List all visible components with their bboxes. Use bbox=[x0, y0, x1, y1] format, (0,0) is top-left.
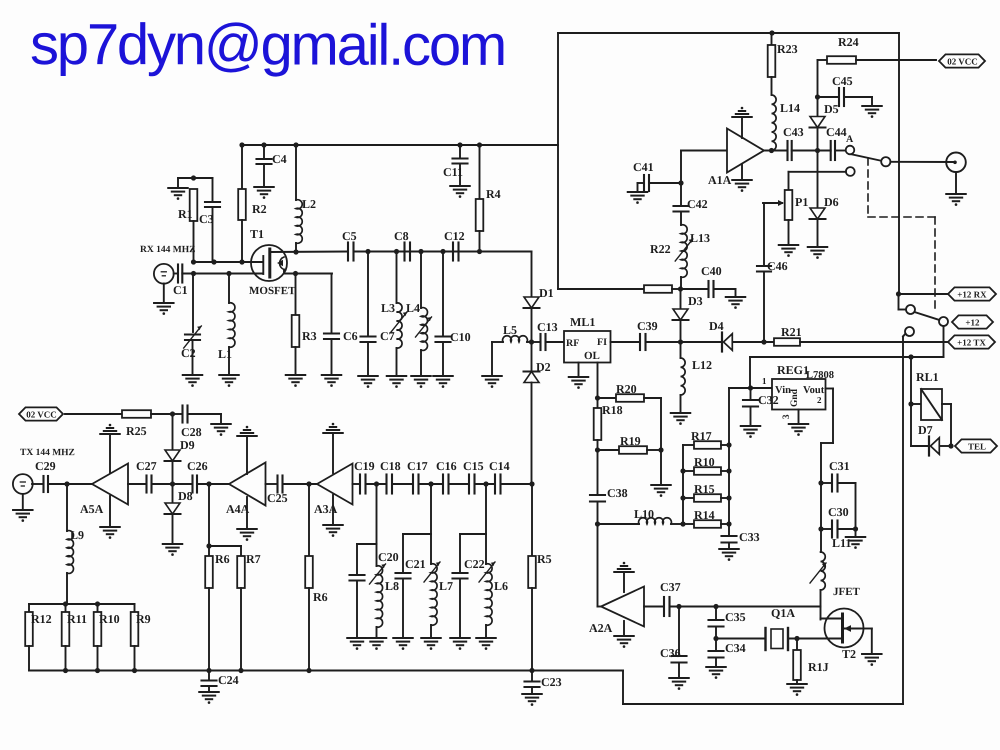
capacitor C6 bbox=[324, 274, 358, 376]
svg-text:C3: C3 bbox=[199, 212, 214, 226]
wire box outline top-right bbox=[558, 33, 899, 294]
resistor R5 bbox=[528, 484, 552, 671]
svg-text:D1: D1 bbox=[539, 286, 554, 300]
ground L4 bbox=[411, 376, 430, 388]
svg-text:D4: D4 bbox=[709, 319, 724, 333]
svg-text:L7808: L7808 bbox=[806, 370, 834, 381]
wire C30 left col bbox=[820, 483, 822, 529]
node rail-R2 bbox=[239, 142, 244, 147]
diode D3 bbox=[673, 289, 703, 342]
svg-text:C44: C44 bbox=[826, 125, 847, 139]
svg-text:D7: D7 bbox=[918, 423, 933, 437]
ground C24 bbox=[199, 692, 218, 704]
wire C26 to A4A bbox=[197, 483, 229, 485]
svg-text:R7: R7 bbox=[246, 552, 261, 566]
resistor R1J bbox=[793, 639, 829, 685]
ground tank3 cap bbox=[450, 638, 469, 650]
capacitor C24 bbox=[202, 671, 239, 693]
svg-text:C42: C42 bbox=[687, 197, 708, 211]
svg-text:C34: C34 bbox=[725, 641, 746, 655]
resistor R2 bbox=[238, 145, 267, 262]
variable inductor L3 bbox=[381, 252, 407, 377]
diode D7 bbox=[911, 404, 954, 456]
svg-text:R10: R10 bbox=[99, 612, 120, 626]
capacitor C3 bbox=[199, 178, 220, 262]
svg-text:D9: D9 bbox=[180, 438, 195, 452]
ground tank1 cap bbox=[347, 638, 366, 650]
svg-text:L7: L7 bbox=[439, 579, 453, 593]
svg-text:L4: L4 bbox=[406, 301, 420, 315]
node xtal left bbox=[713, 636, 718, 641]
svg-text:P1: P1 bbox=[795, 195, 808, 209]
svg-text:C17: C17 bbox=[407, 459, 428, 473]
node chain-t3 bbox=[483, 481, 488, 486]
svg-text:C41: C41 bbox=[633, 160, 654, 174]
node f-C7 bbox=[365, 249, 370, 254]
svg-text:C4: C4 bbox=[272, 152, 287, 166]
node f-L4 bbox=[418, 249, 423, 254]
ground tank2 coil bbox=[421, 638, 440, 650]
wire R6R7 feed bbox=[206, 484, 241, 549]
ground R1 bus bbox=[168, 178, 187, 200]
svg-text:C33: C33 bbox=[739, 530, 760, 544]
diode D1 bbox=[524, 286, 554, 308]
capacitor C13 bbox=[537, 320, 558, 350]
wire +12 to rail bbox=[943, 326, 945, 357]
node +12RX tap bbox=[896, 291, 901, 296]
resistor R20 bbox=[598, 382, 662, 402]
capacitor C42 bbox=[674, 183, 708, 225]
svg-text:A5A: A5A bbox=[80, 502, 104, 516]
svg-text:L12: L12 bbox=[692, 358, 712, 372]
capacitor C1 bbox=[173, 265, 188, 298]
svg-text:C30: C30 bbox=[828, 505, 849, 519]
op-amp A4A bbox=[226, 463, 266, 517]
diode D2 bbox=[524, 342, 551, 484]
svg-text:JFET: JFET bbox=[833, 586, 861, 598]
ground A5A bbox=[100, 496, 119, 539]
node D9-D8 bbox=[170, 481, 175, 486]
potentiometer P1 bbox=[763, 190, 808, 245]
node mix-C46 bbox=[761, 339, 766, 344]
svg-text:C32: C32 bbox=[758, 393, 779, 407]
svg-text:OL: OL bbox=[584, 350, 600, 362]
svg-text:D5: D5 bbox=[824, 102, 839, 116]
wire ladder to Vin bbox=[729, 387, 751, 389]
svg-text:C14: C14 bbox=[489, 459, 510, 473]
svg-text:R21: R21 bbox=[781, 325, 802, 339]
svg-text:A3A: A3A bbox=[314, 502, 338, 516]
node in-C2 bbox=[191, 271, 196, 276]
ground D6 bbox=[808, 247, 827, 259]
svg-text:R6: R6 bbox=[313, 590, 328, 604]
wire A2A output column bbox=[598, 524, 602, 607]
svg-text:R14: R14 bbox=[694, 508, 715, 522]
capacitor C25 bbox=[267, 476, 288, 506]
ground A1A bbox=[732, 164, 751, 192]
svg-text:R15: R15 bbox=[694, 482, 715, 496]
node chain-t1 bbox=[374, 481, 379, 486]
svg-text:L11: L11 bbox=[832, 536, 851, 550]
node C25-R6b bbox=[306, 481, 311, 486]
inductor L2 bbox=[296, 145, 316, 252]
capacitor C12 bbox=[444, 229, 465, 260]
node xtal right bbox=[794, 636, 799, 641]
diode D6 bbox=[810, 151, 839, 248]
wire C31 right bbox=[838, 483, 856, 529]
node C30 left bbox=[818, 526, 823, 531]
wire L11 to gate bbox=[820, 590, 822, 620]
svg-text:C6: C6 bbox=[343, 329, 358, 343]
resistor R12 bbox=[25, 604, 52, 671]
node bus-R11 bbox=[63, 668, 68, 673]
ground C40 bbox=[714, 289, 746, 309]
svg-text:L8: L8 bbox=[385, 579, 399, 593]
svg-text:ML1: ML1 bbox=[570, 315, 595, 329]
capacitor C32 bbox=[743, 388, 779, 426]
wire pin1 bbox=[751, 376, 773, 388]
svg-text:RL1: RL1 bbox=[916, 370, 939, 384]
capacitor C8 bbox=[394, 229, 410, 260]
ground ML1 bbox=[569, 363, 588, 389]
node bank-R10 bbox=[95, 601, 100, 606]
wire chain5 bbox=[475, 483, 496, 485]
wire Vin column bbox=[749, 357, 751, 388]
wire A1A output bbox=[764, 150, 788, 152]
node Vin bbox=[748, 385, 753, 390]
tank C22 L6 bbox=[453, 484, 509, 638]
ground-hat A3A bbox=[323, 423, 342, 473]
node bus-R6 bbox=[206, 668, 211, 673]
ground L1 bbox=[219, 375, 238, 387]
transistor T1 MOSFET bbox=[249, 227, 296, 297]
ground P1 bbox=[779, 245, 798, 257]
switch arm antenna bbox=[852, 154, 882, 161]
svg-text:C45: C45 bbox=[832, 74, 853, 88]
wire RL1 right pin bbox=[942, 404, 951, 446]
node rail-C4 bbox=[261, 142, 266, 147]
resistor R1 bbox=[178, 189, 197, 262]
label TX 144 MHZ bbox=[20, 448, 75, 458]
svg-text:C29: C29 bbox=[35, 459, 56, 473]
ground C32 bbox=[741, 426, 760, 438]
ground A3A bbox=[323, 495, 342, 537]
inductor L10 bbox=[598, 507, 684, 524]
wire RX input line bbox=[182, 273, 263, 275]
connector TX output bbox=[13, 474, 33, 494]
node L10-ladder bbox=[680, 521, 685, 526]
resistor R4 bbox=[476, 145, 501, 252]
diode D5 bbox=[810, 97, 839, 151]
svg-text:2: 2 bbox=[817, 395, 822, 405]
ground C34 bbox=[706, 667, 725, 679]
ground C28 bbox=[188, 414, 231, 436]
ground-hat A1A bbox=[732, 107, 751, 138]
op-amp A2A bbox=[589, 587, 644, 636]
svg-text:C35: C35 bbox=[725, 610, 746, 624]
mixer ML1 bbox=[564, 315, 611, 362]
svg-text:C5: C5 bbox=[342, 229, 357, 243]
node A1A-out bbox=[769, 148, 774, 153]
wire C29 to A5A bbox=[48, 483, 92, 485]
capacitor C41 bbox=[633, 160, 654, 191]
node C30 right bbox=[853, 526, 858, 531]
regulator REG1 L7808 bbox=[772, 363, 834, 419]
wire chain to R5 column bbox=[501, 481, 535, 486]
node R25-D9 bbox=[170, 411, 175, 416]
svg-text:C28: C28 bbox=[181, 425, 202, 439]
svg-text:C10: C10 bbox=[450, 330, 471, 344]
wire filter to D1 column bbox=[459, 252, 532, 298]
node bus-R6b bbox=[306, 668, 311, 673]
svg-text:R20: R20 bbox=[616, 382, 637, 396]
ground-hat A4A bbox=[237, 426, 256, 474]
svg-text:L2: L2 bbox=[302, 197, 316, 211]
node osc-C36 bbox=[676, 604, 681, 609]
node bank-R11 bbox=[63, 601, 68, 606]
resistor R24 bbox=[827, 35, 936, 64]
svg-text:R10: R10 bbox=[694, 455, 715, 469]
wire Rbank top bus bbox=[29, 603, 135, 605]
node bus-R7 bbox=[238, 668, 243, 673]
wire D1 to node bbox=[531, 308, 533, 342]
svg-text:C26: C26 bbox=[187, 459, 208, 473]
wire C25 to A3A bbox=[283, 483, 318, 485]
capacitor C28 bbox=[173, 406, 202, 440]
svg-text:A2A: A2A bbox=[589, 621, 613, 635]
wire osc line bbox=[670, 606, 821, 608]
svg-text:C23: C23 bbox=[541, 675, 562, 689]
node chain-t2 bbox=[428, 481, 433, 486]
svg-text:C25: C25 bbox=[267, 491, 288, 505]
svg-text:D6: D6 bbox=[824, 195, 839, 209]
svg-text:R18: R18 bbox=[602, 403, 623, 417]
svg-text:L5: L5 bbox=[503, 323, 517, 337]
svg-text:R6: R6 bbox=[215, 552, 230, 566]
wire A3A in bbox=[353, 483, 361, 485]
svg-text:L13: L13 bbox=[690, 231, 710, 245]
wire T1 drain bbox=[270, 252, 348, 274]
inductor L1 bbox=[218, 274, 235, 376]
svg-text:REG1: REG1 bbox=[777, 363, 809, 377]
wire chain2 bbox=[392, 483, 413, 485]
crystal Q1A bbox=[716, 606, 842, 650]
capacitor C7 bbox=[361, 252, 395, 377]
resistor R17 bbox=[683, 429, 729, 449]
svg-text:L6: L6 bbox=[494, 579, 508, 593]
node rail-R4 bbox=[477, 142, 482, 147]
capacitor C5 bbox=[342, 229, 357, 260]
wire R1 top bus bbox=[178, 177, 213, 179]
svg-text:C16: C16 bbox=[436, 459, 457, 473]
dashed switch link bbox=[868, 158, 935, 308]
capacitor C11 bbox=[443, 145, 468, 186]
svg-text:C1: C1 bbox=[173, 283, 188, 297]
capacitor C27 bbox=[136, 459, 157, 492]
svg-text:C22: C22 bbox=[464, 557, 485, 571]
svg-text:R19: R19 bbox=[620, 434, 641, 448]
resistor R7 bbox=[237, 546, 261, 671]
svg-text:3: 3 bbox=[781, 414, 791, 419]
svg-text:+12: +12 bbox=[965, 317, 980, 327]
node out-D5 bbox=[815, 148, 820, 153]
wire TX pole down bbox=[903, 334, 906, 705]
svg-text:R11: R11 bbox=[67, 612, 87, 626]
svg-text:R17: R17 bbox=[691, 429, 712, 443]
flag +12 RX bbox=[948, 287, 996, 300]
svg-text:RX 144 MHZ: RX 144 MHZ bbox=[140, 245, 195, 255]
node f-C10 bbox=[440, 249, 445, 254]
svg-text:C37: C37 bbox=[660, 580, 681, 594]
node A bbox=[846, 134, 855, 154]
wire D4 to R21 bbox=[733, 341, 775, 343]
variable inductor L4 bbox=[406, 252, 432, 377]
flag +12 TX bbox=[948, 335, 995, 348]
contact circle +12 pole bbox=[939, 317, 948, 326]
node rail-C11 bbox=[457, 142, 462, 147]
svg-text:C39: C39 bbox=[637, 319, 658, 333]
wire ML1 FI out bbox=[611, 341, 641, 343]
capacitor C17 bbox=[407, 459, 428, 493]
resistor R15 bbox=[683, 482, 729, 502]
node R22-D3 bbox=[678, 286, 683, 291]
svg-text:R25: R25 bbox=[126, 424, 147, 438]
op-amp A1A bbox=[681, 129, 764, 188]
svg-text:C18: C18 bbox=[380, 459, 401, 473]
node in-L1 bbox=[226, 271, 231, 276]
capacitor C34 bbox=[709, 639, 746, 668]
resistor R10 ladder bbox=[683, 455, 729, 475]
svg-text:L1: L1 bbox=[218, 347, 232, 361]
svg-text:C36: C36 bbox=[660, 646, 681, 660]
svg-text:+12 RX: +12 RX bbox=[957, 289, 987, 299]
tank C21 L7 bbox=[396, 484, 454, 638]
svg-text:D2: D2 bbox=[536, 360, 551, 374]
ground-hat A2A bbox=[614, 562, 633, 592]
wire RX-throw to P1 bbox=[789, 172, 846, 190]
capacitor C44 bbox=[826, 125, 847, 160]
svg-text:TX 144 MHZ: TX 144 MHZ bbox=[20, 448, 75, 458]
ground TX connector bbox=[13, 494, 32, 522]
svg-text:TEL: TEL bbox=[968, 441, 986, 451]
svg-text:L3: L3 bbox=[381, 301, 395, 315]
wire C27 to node bbox=[152, 483, 193, 485]
capacitor C16 bbox=[436, 459, 457, 493]
label RX 144 MHZ bbox=[140, 245, 195, 255]
text sp7dyn@gmail.com bbox=[30, 12, 505, 78]
diode D9 bbox=[165, 414, 195, 484]
svg-text:A1A: A1A bbox=[708, 173, 732, 187]
ground C33 bbox=[719, 549, 738, 561]
resistor R14 bbox=[683, 508, 729, 528]
ground tank3 coil bbox=[476, 638, 495, 650]
node gate-C3 bbox=[211, 259, 216, 264]
ground C45 bbox=[844, 97, 882, 118]
node TX-L9 bbox=[64, 481, 69, 486]
ground C4 bbox=[254, 187, 273, 199]
wire A4A in bbox=[266, 483, 278, 485]
inductor L12 bbox=[681, 342, 713, 413]
capacitor C45 bbox=[818, 74, 853, 106]
node R18-R19 bbox=[595, 447, 600, 452]
node box-R23 bbox=[769, 30, 774, 35]
ground C2 bbox=[183, 375, 202, 387]
ground D8 bbox=[163, 544, 182, 556]
svg-text:sp7dyn@gmail.com: sp7dyn@gmail.com bbox=[30, 12, 505, 78]
transistor T2 JFET bbox=[821, 586, 864, 661]
svg-text:R3: R3 bbox=[302, 329, 317, 343]
resistor R9 bbox=[131, 604, 151, 671]
svg-text:C31: C31 bbox=[829, 459, 850, 473]
svg-text:C13: C13 bbox=[537, 320, 558, 334]
resistor R10 bank bbox=[94, 604, 120, 671]
wire C30 right bbox=[838, 528, 856, 530]
svg-text:R22: R22 bbox=[650, 242, 671, 256]
node rail-L2 bbox=[293, 142, 298, 147]
resistor R6 A4A bbox=[205, 546, 230, 671]
wire T2 source gnd bbox=[860, 629, 872, 655]
ground C30 bbox=[846, 529, 865, 549]
node osc-C35 bbox=[713, 604, 718, 609]
svg-text:R1J: R1J bbox=[808, 660, 829, 674]
diode D8 bbox=[165, 484, 193, 544]
wire A5A in bbox=[128, 483, 147, 485]
svg-text:02 VCC: 02 VCC bbox=[947, 56, 978, 66]
ground C23 bbox=[522, 694, 541, 706]
node drain-L2 bbox=[293, 249, 298, 254]
resistor R23 bbox=[768, 33, 798, 95]
resistor R21 bbox=[774, 325, 948, 346]
svg-text:R9: R9 bbox=[136, 612, 151, 626]
svg-text:L14: L14 bbox=[780, 101, 800, 115]
wire ladder right bus bbox=[726, 388, 731, 536]
capacitor C30 bbox=[821, 505, 849, 537]
wire R20R19 gnd column bbox=[658, 398, 663, 485]
svg-text:C21: C21 bbox=[405, 557, 426, 571]
relay RL1 bbox=[908, 357, 942, 420]
svg-text:C40: C40 bbox=[701, 264, 722, 278]
svg-text:C27: C27 bbox=[136, 459, 157, 473]
ground-hat A5A bbox=[100, 424, 119, 473]
connector antenna bbox=[946, 153, 966, 173]
ground C6 bbox=[322, 375, 341, 387]
capacitor C43 bbox=[783, 125, 804, 160]
wire C39 to D3 node bbox=[646, 341, 723, 343]
wire top supply rail bbox=[242, 144, 558, 146]
svg-text:R24: R24 bbox=[838, 35, 859, 49]
ground C41 bbox=[628, 183, 647, 204]
contact circle antenna bbox=[881, 157, 890, 166]
capacitor C29 bbox=[32, 459, 56, 492]
svg-text:+12 TX: +12 TX bbox=[957, 337, 986, 347]
wire VCC to R25 bbox=[65, 413, 122, 415]
variable inductor L11 bbox=[810, 529, 851, 590]
flag 02 VCC top bbox=[939, 54, 985, 67]
ground L12 bbox=[671, 413, 690, 425]
capacitor C10 bbox=[436, 252, 471, 377]
svg-text:C24: C24 bbox=[218, 673, 239, 687]
inductor L14 bbox=[772, 95, 801, 151]
wire +12RX bbox=[899, 293, 949, 295]
wire C41 to node bbox=[649, 182, 681, 184]
wire R24 branch bbox=[818, 60, 828, 97]
ground antenna bbox=[946, 172, 965, 206]
wire relay rail bbox=[750, 356, 944, 358]
ground A2A bbox=[614, 621, 633, 648]
svg-text:MOSFET: MOSFET bbox=[249, 285, 296, 297]
op-amp A5A bbox=[80, 464, 128, 517]
svg-text:A: A bbox=[846, 134, 854, 145]
